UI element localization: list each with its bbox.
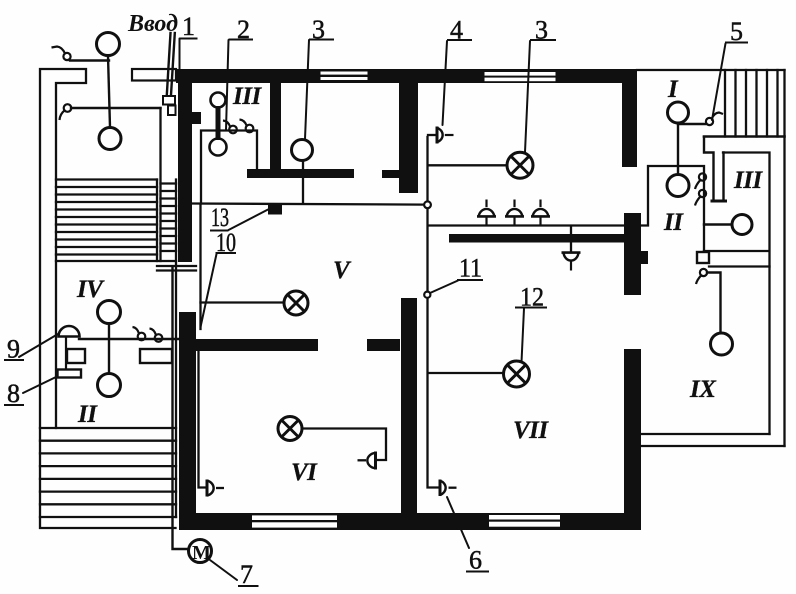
lamp hall top (pendant) [97, 33, 120, 56]
wire room II-left horizontal [79, 338, 178, 340]
stair lower-left treads [40, 428, 176, 517]
wire to lamp room V [201, 301, 285, 303]
svg-text:6: 6 [469, 546, 482, 575]
socket row b [505, 200, 524, 226]
svg-text:VI: VI [291, 459, 318, 486]
wall square protrusion right [640, 251, 648, 264]
switch S3 room II-left a [133, 327, 146, 340]
wall stub at T-wall [382, 170, 400, 178]
svg-text:M: M [192, 542, 211, 564]
underline 1 [180, 38, 198, 40]
svg-text:IX: IX [689, 376, 717, 403]
switch S7 (item 5) landing [706, 113, 723, 126]
leader 7 [210, 560, 237, 580]
svg-text:5: 5 [730, 17, 743, 46]
junction ring B [424, 292, 430, 298]
leader 5 [712, 44, 726, 121]
wire switch1 to lamp [70, 59, 109, 61]
wall T partition top-centre [399, 82, 418, 193]
underline 8 [4, 404, 24, 406]
wall room III-left right pier [270, 82, 281, 170]
leader 4 [443, 41, 448, 125]
underline 12 [515, 307, 547, 309]
svg-text:2: 2 [237, 15, 250, 44]
wire sockets row room VII top [428, 224, 624, 226]
svg-text:V: V [333, 257, 352, 284]
underline 9 [4, 359, 24, 361]
leader 2 [226, 40, 229, 130]
lamp room IV (pendant) [98, 301, 121, 324]
svg-text:VII: VII [513, 417, 549, 444]
lamp ceiling X room V [284, 291, 308, 315]
stair right edge line [175, 180, 177, 518]
wire socket row right tail [641, 166, 704, 252]
lamp ceiling X room top-right [507, 152, 533, 178]
wire to lamp top-right room [428, 164, 507, 166]
window bottom wall 1 [252, 515, 337, 527]
socket 4 (wall outlet) [437, 127, 454, 144]
wire socket4 stub [428, 134, 437, 136]
stair top-right top line [637, 69, 785, 71]
lamp room III-right (pendant) [732, 215, 752, 235]
wall bar under room III-left [247, 169, 354, 178]
socket box room II-right (open square) [697, 252, 709, 263]
switch S9 room II-right b [695, 190, 706, 206]
stair top-right right outer wall [783, 70, 785, 446]
switch S4 room II-left b [150, 329, 163, 342]
lamp pendant top-centre room [292, 140, 313, 161]
lamp stem room III-left [216, 106, 221, 140]
socket row c [531, 200, 550, 226]
svg-text:IV: IV [76, 276, 105, 303]
wire to motor M [173, 268, 189, 549]
underline 3 right [530, 39, 556, 41]
wire lamp III pendant drop [302, 161, 304, 204]
wire lamp VI to socket [302, 429, 386, 461]
svg-text:9: 9 [7, 335, 20, 364]
underline 2 [229, 39, 254, 41]
switch S8 room II-right a [695, 173, 706, 189]
wire to lamp 12 [428, 372, 503, 374]
svg-text:4: 4 [450, 16, 463, 45]
wall outer left L-outline [40, 69, 176, 528]
leader 9 [19, 334, 58, 357]
wall hook end cap [712, 200, 726, 203]
stair flight divider line [156, 180, 158, 262]
stair bottom boundary upper flight [56, 260, 176, 262]
wire main riser room VII [428, 137, 441, 488]
wire switch2 across stair [71, 107, 161, 109]
underline 13 [210, 230, 229, 232]
leader 13 [229, 210, 269, 231]
svg-text:1: 1 [182, 12, 195, 41]
leader 6 [447, 497, 469, 548]
underline 10 [216, 252, 237, 254]
window top wall 2 [485, 72, 556, 81]
leader 12 [522, 309, 525, 363]
window bottom wall 2 [489, 515, 560, 527]
underline 5 [725, 42, 748, 44]
bell symbol (item 9) [59, 326, 80, 337]
svg-text:III: III [733, 167, 763, 194]
stair upper-left top edge [56, 178, 157, 180]
lamp room I (pendant) [668, 102, 689, 123]
wire lamp I to switch 5 [678, 123, 706, 125]
lamp room IX (pendant) [711, 333, 733, 355]
switch S1 top-left [52, 47, 71, 61]
lamp two-bulb room III-left bottom [210, 139, 227, 156]
wall hook right landing [704, 137, 724, 200]
svg-text:Ввод: Ввод [127, 11, 178, 37]
underline 7 [238, 585, 259, 587]
porch rectangle at entrance [132, 69, 176, 81]
wire switch IX to lamp [707, 273, 721, 334]
wall bar top of room VII [449, 234, 641, 243]
wall bottom main [180, 513, 641, 530]
leader 11 [430, 281, 458, 294]
svg-text:10: 10 [216, 228, 236, 257]
room IX outer bottom [641, 445, 785, 447]
svg-text:3: 3 [312, 15, 325, 44]
wall right upper segment [622, 70, 637, 167]
underline 6 [466, 571, 489, 573]
svg-text:8: 8 [7, 379, 20, 408]
door threshold lines landing [157, 266, 196, 271]
stair upper-left treads flight A [56, 187, 157, 255]
leader 1 [179, 39, 181, 94]
room IX top line [709, 265, 770, 267]
svg-text:7: 7 [240, 560, 253, 589]
wall between VI and VII [401, 298, 417, 529]
entrance box 1 [163, 96, 175, 105]
room III-left closet lines [201, 131, 257, 204]
svg-text:III: III [232, 83, 262, 110]
wall right middle segment [624, 213, 641, 295]
wire stem lamps room I-II [677, 123, 679, 175]
window top wall 1 [321, 72, 368, 81]
wall stub left (door jamb) [192, 112, 201, 124]
switch S6 room III-left b [240, 120, 254, 133]
switch S5 room III-left a [223, 121, 237, 134]
entrance box 2 [168, 106, 176, 116]
svg-text:3: 3 [535, 16, 548, 45]
wall right lower segment [624, 349, 641, 530]
leader 8 [23, 377, 56, 393]
svg-text:II: II [663, 209, 684, 236]
wire pendant socket drop [570, 226, 572, 252]
leader 10 [201, 254, 217, 327]
stair top-right treads [725, 70, 778, 137]
wall left lower segment [179, 312, 196, 530]
socket room VI left [207, 480, 224, 497]
svg-text:12: 12 [520, 283, 544, 312]
wire riser room VI [199, 352, 208, 488]
svg-text:11: 11 [459, 254, 482, 283]
room III-right box [704, 153, 770, 435]
room IX inner bottom [641, 433, 770, 435]
lamp ceiling X room VII (12) [504, 361, 530, 387]
underline 4 [447, 39, 472, 41]
lamp stair mid (pendant) [99, 128, 121, 150]
wire bell to button [65, 337, 67, 370]
lamp room II-left (pendant) [98, 374, 121, 397]
wire stem lamps hall top [108, 56, 110, 127]
bell button (item 8) [58, 370, 82, 378]
socket room VI right (mirrored) [358, 452, 376, 470]
junction ring A [424, 201, 431, 208]
socket pendant below bar [562, 253, 581, 271]
svg-text:II: II [77, 401, 98, 428]
svg-text:I: I [667, 76, 679, 103]
underline 3 left [309, 39, 334, 41]
lamp two-bulb room III-left top [211, 93, 226, 108]
wire stem lamps room II-left [108, 324, 110, 374]
wall left upper segment [178, 70, 192, 262]
underline 11 [457, 279, 483, 281]
wire riser room V [199, 205, 201, 330]
socket row a [477, 200, 496, 226]
socket 6 room VII [440, 480, 457, 497]
switch S10 room IX [696, 269, 707, 284]
lamp ceiling X room VI [278, 417, 302, 441]
switch S2 mid-left [60, 104, 72, 120]
wire lamp III-right [704, 223, 732, 225]
wire switch2 descent [159, 108, 161, 261]
leader 3 left [305, 40, 309, 139]
room V top thin line [192, 204, 425, 205]
wall between V and VI right piece [367, 339, 400, 351]
motor M circle [189, 540, 212, 563]
service entrance cable Ввод [167, 33, 175, 95]
device rectangle below bell [67, 349, 85, 363]
wall between V and VI left piece [196, 339, 318, 351]
junction box 13 (black square) [268, 204, 282, 215]
panel rectangle at wall [140, 349, 172, 363]
wall top main [176, 69, 637, 83]
leader 3 right [525, 41, 530, 152]
stair top-right bottom line [704, 135, 785, 138]
stair upper-left rungs flight B [161, 184, 177, 252]
lamp room II-right (pendant) [667, 175, 689, 197]
